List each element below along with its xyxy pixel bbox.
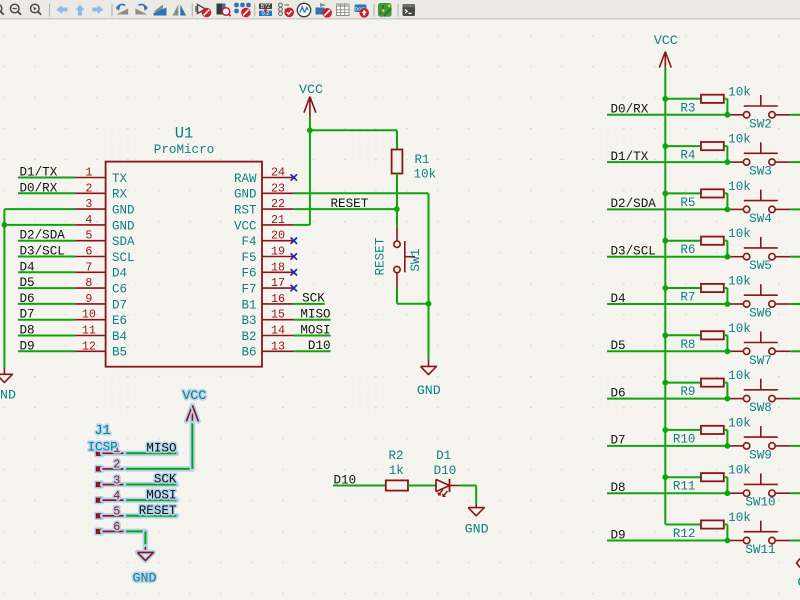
svg-text:SW10: SW10 [745, 496, 775, 510]
svg-text:5: 5 [113, 505, 120, 519]
svg-text:3: 3 [85, 197, 92, 211]
svg-text:GND: GND [112, 219, 135, 233]
svg-text:SW3: SW3 [749, 165, 772, 179]
svg-text:B2: B2 [241, 330, 256, 344]
svg-text:1k: 1k [389, 464, 404, 478]
svg-text:D7: D7 [611, 434, 626, 448]
svg-text:ICSP: ICSP [88, 441, 118, 455]
svg-text:10k: 10k [728, 133, 751, 147]
svg-text:D9: D9 [611, 528, 626, 542]
svg-text:B5: B5 [112, 346, 127, 360]
svg-text:D3/SCL: D3/SCL [611, 245, 656, 259]
svg-text:15: 15 [271, 308, 285, 322]
svg-text:4: 4 [85, 213, 92, 227]
svg-text:5: 5 [85, 229, 92, 243]
svg-text:D4: D4 [112, 267, 127, 281]
svg-text:22: 22 [271, 197, 285, 211]
svg-text:SW6: SW6 [749, 307, 772, 321]
svg-text:17: 17 [271, 276, 285, 290]
svg-text:GND: GND [234, 188, 257, 202]
svg-text:D6: D6 [20, 292, 35, 306]
svg-text:21: 21 [271, 213, 285, 227]
svg-text:R4: R4 [680, 149, 695, 163]
svg-text:D7: D7 [20, 308, 35, 322]
svg-text:D4: D4 [20, 260, 35, 274]
svg-text:TX: TX [112, 172, 128, 186]
svg-text:RESET: RESET [374, 237, 388, 275]
svg-text:14: 14 [271, 324, 285, 338]
svg-text:1: 1 [85, 166, 92, 180]
svg-text:SCK: SCK [302, 292, 325, 306]
svg-text:R7: R7 [680, 291, 695, 305]
svg-text:R8: R8 [680, 338, 695, 352]
svg-text:D10: D10 [308, 339, 331, 353]
svg-text:10k: 10k [728, 275, 751, 289]
svg-text:12: 12 [82, 339, 96, 353]
svg-text:D8: D8 [20, 324, 35, 338]
svg-text:RST: RST [234, 204, 257, 218]
svg-text:SW8: SW8 [749, 401, 772, 415]
svg-text:B6: B6 [241, 346, 256, 360]
svg-text:GND: GND [465, 522, 489, 537]
svg-text:R2: R2 [388, 449, 403, 463]
svg-text:R10: R10 [673, 432, 696, 446]
svg-text:RAW: RAW [234, 172, 257, 186]
svg-text:MOSI: MOSI [300, 323, 330, 337]
svg-text:10k: 10k [414, 167, 437, 181]
svg-text:MISO: MISO [300, 308, 330, 322]
svg-text:SCK: SCK [154, 473, 177, 487]
svg-text:F6: F6 [241, 267, 256, 281]
svg-text:VCC: VCC [234, 219, 257, 233]
svg-text:F5: F5 [241, 251, 256, 265]
svg-text:SW1: SW1 [409, 249, 423, 272]
svg-text:10k: 10k [728, 511, 751, 525]
svg-text:E6: E6 [112, 314, 127, 328]
svg-text:11: 11 [82, 324, 96, 338]
svg-text:10k: 10k [728, 227, 751, 241]
svg-text:10k: 10k [728, 180, 751, 194]
svg-text:D0/RX: D0/RX [611, 103, 649, 117]
svg-text:SW9: SW9 [749, 448, 772, 462]
svg-text:GND: GND [133, 570, 157, 585]
svg-text:R1: R1 [415, 153, 430, 167]
svg-text:2: 2 [85, 181, 92, 195]
svg-text:2: 2 [113, 458, 120, 472]
svg-text:D5: D5 [20, 276, 35, 290]
svg-text:6: 6 [113, 520, 120, 534]
svg-text:6: 6 [85, 245, 92, 259]
svg-text:24: 24 [271, 166, 285, 180]
svg-text:SW4: SW4 [749, 212, 772, 226]
svg-text:9: 9 [85, 292, 92, 306]
svg-text:R6: R6 [680, 243, 695, 257]
svg-text:R3: R3 [680, 101, 695, 115]
svg-text:D9: D9 [20, 339, 35, 353]
svg-text:D6: D6 [611, 386, 626, 400]
svg-text:13: 13 [271, 339, 285, 353]
svg-text:RESET: RESET [331, 197, 369, 211]
svg-text:B4: B4 [112, 330, 127, 344]
svg-text:D1/TX: D1/TX [20, 166, 58, 180]
svg-text:R12: R12 [673, 527, 696, 541]
svg-text:4: 4 [113, 489, 120, 503]
svg-text:D1/TX: D1/TX [611, 150, 649, 164]
svg-text:10k: 10k [728, 416, 751, 430]
svg-text:D3/SCL: D3/SCL [20, 245, 65, 259]
svg-text:10k: 10k [728, 369, 751, 383]
svg-text:VCC: VCC [182, 388, 206, 403]
svg-text:D5: D5 [611, 339, 626, 353]
svg-text:23: 23 [271, 181, 285, 195]
svg-text:B1: B1 [241, 298, 256, 312]
svg-text:10: 10 [82, 308, 96, 322]
svg-text:D1: D1 [436, 449, 451, 463]
svg-text:D2/SDA: D2/SDA [20, 229, 66, 243]
svg-text:0.2: 0.2 [262, 11, 270, 17]
svg-text:10k: 10k [728, 322, 751, 336]
svg-text:19: 19 [271, 245, 285, 259]
svg-text:7: 7 [85, 260, 92, 274]
svg-text:SW5: SW5 [749, 259, 772, 273]
svg-text:MISO: MISO [146, 442, 176, 456]
svg-text:R9: R9 [680, 385, 695, 399]
svg-text:10k: 10k [728, 464, 751, 478]
svg-text:ProMicro: ProMicro [154, 143, 214, 157]
svg-text:D0/RX: D0/RX [20, 181, 58, 195]
svg-text:C6: C6 [112, 283, 127, 297]
svg-text:8: 8 [85, 276, 92, 290]
svg-text:D8: D8 [611, 481, 626, 495]
svg-text:MOSI: MOSI [146, 488, 176, 502]
svg-text:SW7: SW7 [749, 354, 772, 368]
svg-text:GND: GND [112, 204, 135, 218]
svg-text:SW11: SW11 [745, 543, 775, 557]
svg-text:20: 20 [271, 229, 285, 243]
svg-text:10k: 10k [728, 85, 751, 99]
svg-text:U1: U1 [175, 125, 194, 143]
svg-text:B3: B3 [241, 314, 256, 328]
svg-text:F4: F4 [241, 235, 256, 249]
svg-text:R5: R5 [680, 196, 695, 210]
svg-text:SDA: SDA [112, 235, 135, 249]
svg-text:RESET: RESET [139, 504, 177, 518]
svg-text:3: 3 [113, 473, 120, 487]
svg-text:GND: GND [417, 383, 441, 398]
svg-text:RX: RX [112, 188, 128, 202]
svg-text:D10: D10 [434, 464, 457, 478]
svg-text:D7: D7 [112, 298, 127, 312]
svg-text:16: 16 [271, 292, 285, 306]
svg-text:D4: D4 [611, 292, 626, 306]
svg-text:SW2: SW2 [749, 117, 772, 131]
svg-text:F7: F7 [241, 283, 256, 297]
svg-text:R11: R11 [673, 480, 696, 494]
svg-text:D2/SDA: D2/SDA [611, 197, 657, 211]
svg-text:SCL: SCL [112, 251, 135, 265]
svg-text:VCC: VCC [299, 82, 323, 97]
svg-text:VCC: VCC [654, 33, 678, 48]
svg-text:J1: J1 [95, 424, 111, 439]
svg-text:GND: GND [0, 388, 16, 403]
svg-text:18: 18 [271, 260, 285, 274]
